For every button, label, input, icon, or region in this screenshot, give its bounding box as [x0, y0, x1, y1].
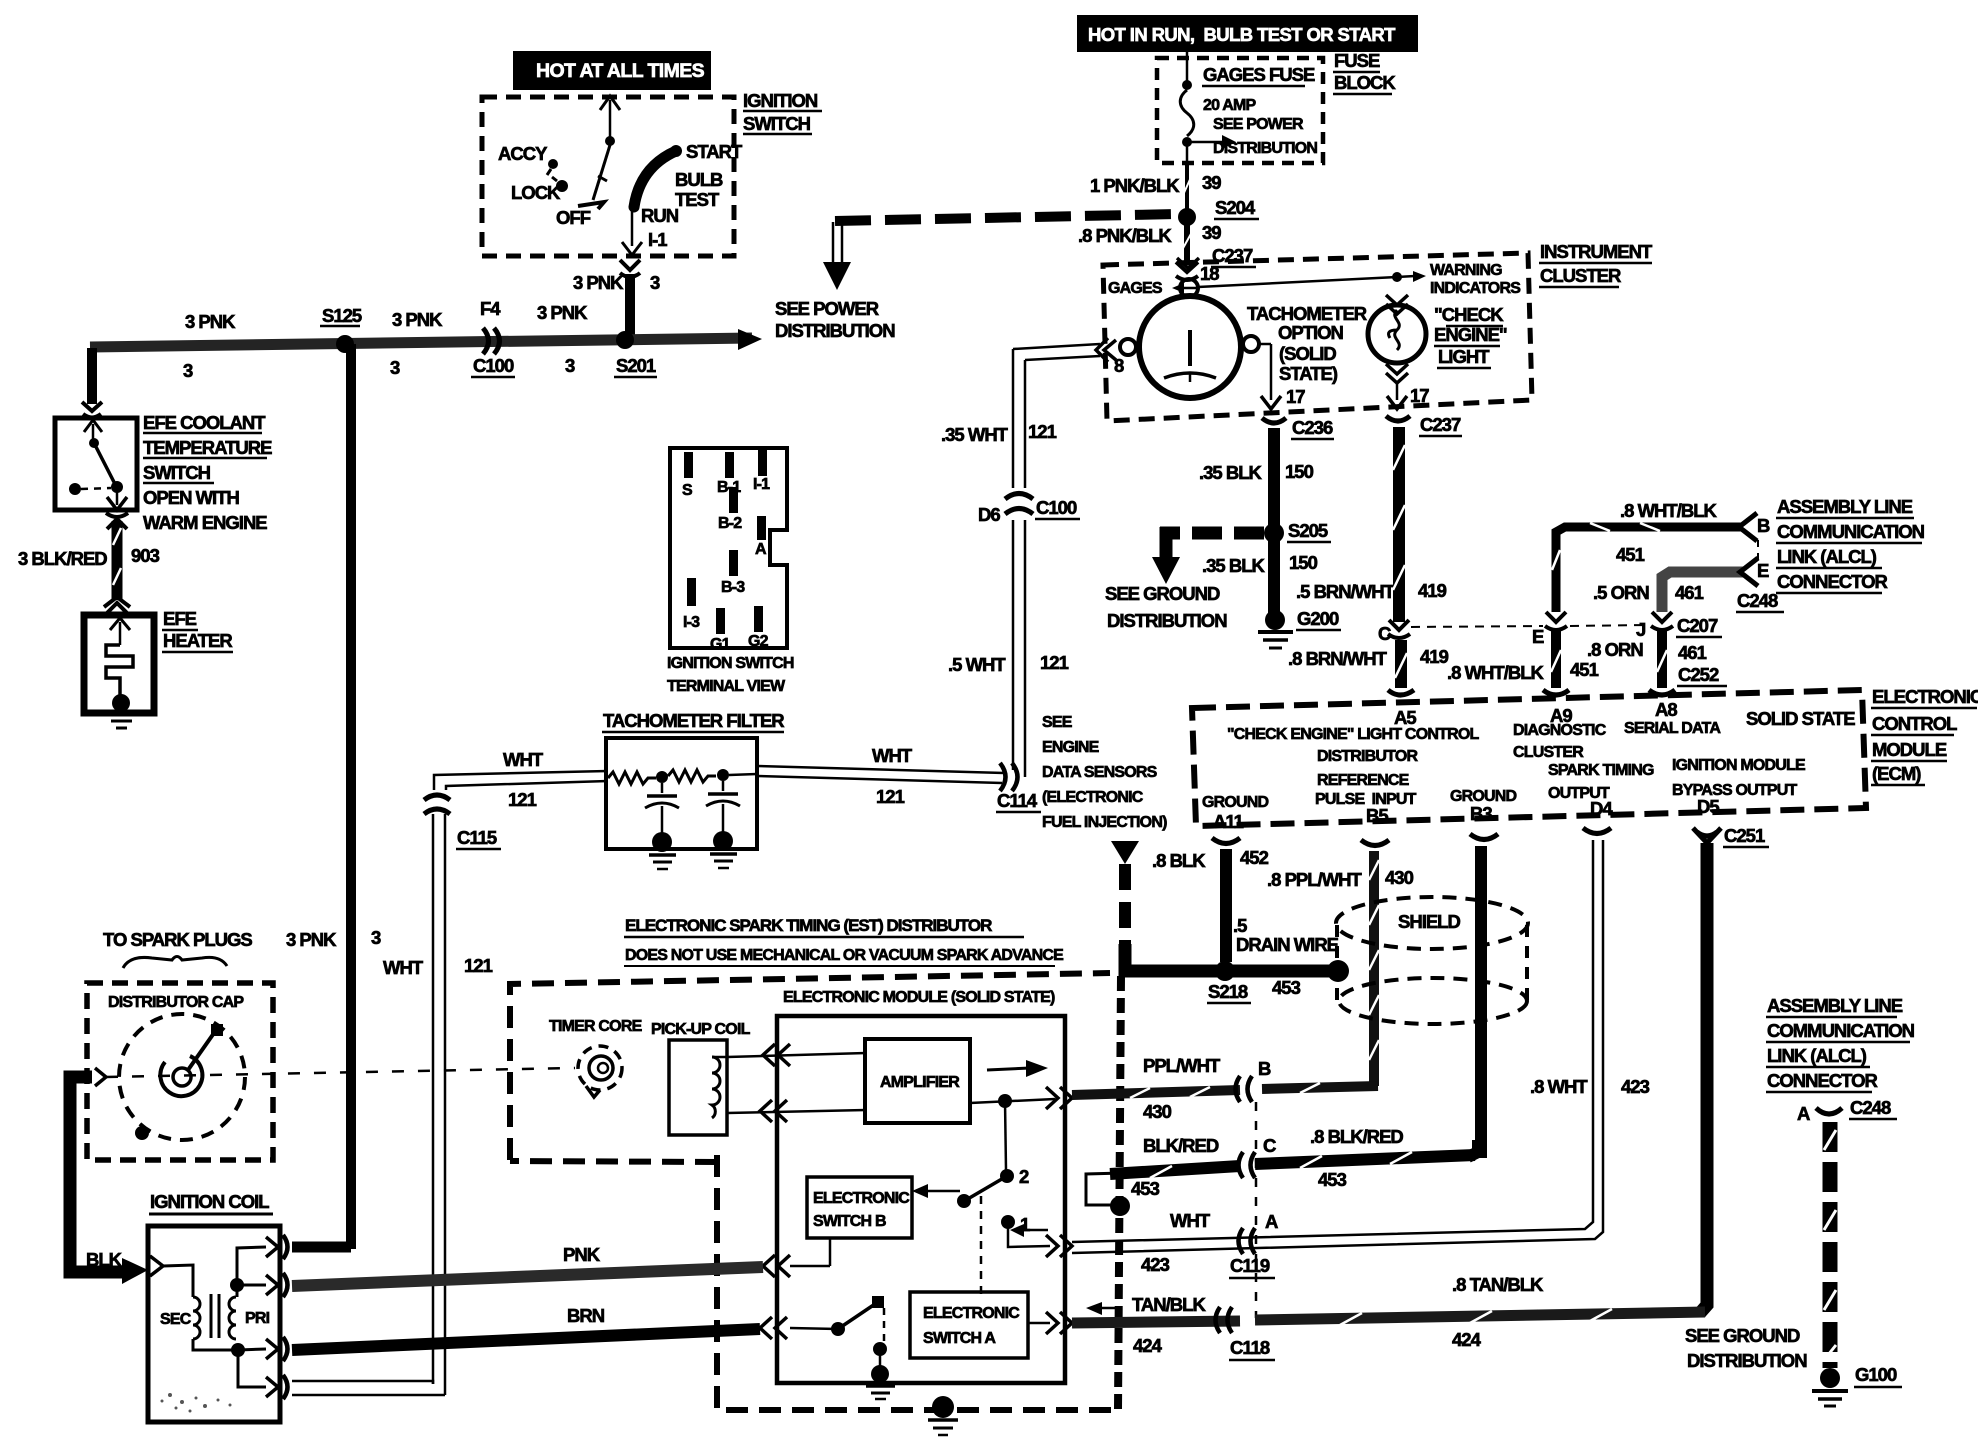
label .8 WHT 423 — [1530, 1076, 1650, 1097]
svg-text:E: E — [1532, 626, 1544, 647]
label .8 TAN/BLK 424 — [1452, 1274, 1544, 1350]
svg-text:I-3: I-3 — [683, 614, 700, 631]
svg-text:430: 430 — [1143, 1101, 1172, 1122]
svg-text:BULB: BULB — [675, 169, 723, 190]
rotor axis dashed line — [106, 1068, 575, 1077]
EFE coolant temperature switch — [55, 418, 137, 510]
svg-text:121: 121 — [508, 789, 537, 810]
svg-text:COMMUNICATION: COMMUNICATION — [1767, 1020, 1915, 1041]
distributor cap left terminal — [95, 1068, 106, 1086]
svg-text:TEST: TEST — [675, 189, 720, 210]
svg-text:S201: S201 — [616, 355, 656, 376]
svg-text:ELECTRONIC: ELECTRONIC — [813, 1190, 910, 1207]
svg-text:.35 WHT: .35 WHT — [941, 424, 1009, 445]
svg-text:(ELECTRONIC: (ELECTRONIC — [1042, 789, 1144, 806]
tachometer filter box — [606, 738, 757, 849]
bulb wire 17 — [1387, 383, 1429, 409]
label .5 DRAIN WIRE — [1233, 915, 1339, 955]
svg-text:OPEN WITH: OPEN WITH — [143, 487, 239, 508]
svg-text:C100: C100 — [473, 355, 514, 376]
svg-text:LIGHT: LIGHT — [1438, 346, 1490, 367]
connector C236 — [1262, 417, 1334, 439]
svg-text:I-1: I-1 — [648, 229, 667, 250]
amplifier output arrow — [987, 1060, 1048, 1077]
fuse block box — [1157, 58, 1323, 163]
svg-text:STATE): STATE) — [1279, 363, 1338, 384]
svg-text:3 PNK: 3 PNK — [537, 302, 588, 323]
svg-text:HOT AT ALL TIMES: HOT AT ALL TIMES — [536, 60, 705, 82]
svg-text:461: 461 — [1678, 642, 1707, 663]
label .8 WHT/BLK 451 (lower) — [1447, 659, 1599, 683]
svg-text:C236: C236 — [1292, 417, 1333, 438]
ignition switch terminal view box — [670, 448, 787, 653]
svg-text:452: 452 — [1240, 847, 1269, 868]
svg-text:S205: S205 — [1288, 520, 1328, 541]
bus arrowhead — [738, 329, 762, 350]
drain wire end junction — [1327, 960, 1349, 982]
svg-text:SEE GROUND: SEE GROUND — [1685, 1325, 1800, 1346]
svg-text:3: 3 — [183, 360, 193, 381]
ignition switch terminal view label — [667, 655, 794, 695]
svg-text:DISTRIBUTOR CAP: DISTRIBUTOR CAP — [108, 994, 244, 1011]
svg-text:J: J — [1636, 619, 1646, 640]
svg-text:DATA SENSORS: DATA SENSORS — [1042, 764, 1158, 781]
svg-text:LOCK: LOCK — [511, 182, 561, 203]
svg-text:DOES NOT USE MECHANICAL OR VAC: DOES NOT USE MECHANICAL OR VACUUM SPARK … — [625, 947, 1064, 964]
amplifier — [865, 1039, 970, 1123]
label .35 BLK 150 (lower) — [1202, 552, 1318, 576]
svg-text:.35 BLK: .35 BLK — [1199, 462, 1263, 483]
BLK/RED wire to B3 — [1110, 1140, 1478, 1178]
ignition coil internals — [160, 1247, 270, 1387]
BLK wire distributor to coil — [70, 1077, 148, 1284]
svg-text:CLUSTER: CLUSTER — [1513, 744, 1584, 761]
coil terminal cups — [283, 1235, 288, 1399]
svg-text:121: 121 — [1040, 652, 1069, 673]
connector B — [1236, 1058, 1272, 1102]
wire RUN to I-1 connector — [622, 208, 642, 255]
fuse block label — [1333, 50, 1396, 94]
warning indicators label — [1430, 262, 1521, 297]
shield cylinder — [1336, 897, 1528, 1024]
svg-text:423: 423 — [1141, 1254, 1170, 1275]
gages fuse labels — [1202, 64, 1317, 157]
connector below coolant switch — [106, 513, 128, 529]
svg-text:TAN/BLK: TAN/BLK — [1132, 1294, 1206, 1315]
svg-text:B: B — [1757, 515, 1770, 536]
svg-text:903: 903 — [131, 545, 160, 566]
wire 903 to EFE heater — [113, 521, 121, 600]
svg-text:A5: A5 — [1394, 707, 1416, 728]
gages fuse — [1180, 52, 1236, 163]
svg-text:PNK: PNK — [563, 1244, 601, 1265]
connector C251 — [1723, 825, 1769, 847]
svg-text:C252: C252 — [1678, 664, 1719, 685]
svg-text:3 BLK/RED: 3 BLK/RED — [18, 548, 107, 569]
svg-text:ENGINE": ENGINE" — [1434, 324, 1507, 345]
svg-text:TO SPARK PLUGS: TO SPARK PLUGS — [103, 929, 252, 950]
EFI branch arrow — [1111, 841, 1139, 864]
svg-text:.8 WHT/BLK: .8 WHT/BLK — [1620, 500, 1717, 521]
svg-text:451: 451 — [1570, 659, 1599, 680]
connector E (ECM row) — [1532, 612, 1567, 647]
svg-text:SOLID STATE: SOLID STATE — [1746, 708, 1855, 729]
svg-text:.8 TAN/BLK: .8 TAN/BLK — [1452, 1274, 1544, 1295]
svg-text:453: 453 — [1318, 1169, 1347, 1190]
cluster feed terminal 18 — [1177, 258, 1219, 297]
svg-text:HEATER: HEATER — [163, 630, 232, 651]
hot-in-run label box — [1077, 15, 1418, 52]
ground G200 — [1258, 608, 1341, 648]
svg-text:424: 424 — [1452, 1329, 1482, 1350]
ALCL ground wire — [1824, 1122, 1836, 1368]
EST box right edge (drain dashed) — [1118, 976, 1121, 1410]
wire J to ECM — [1649, 628, 1675, 695]
svg-text:OFF: OFF — [556, 207, 591, 228]
pick-up coil — [651, 1021, 751, 1135]
svg-text:17: 17 — [1410, 385, 1429, 406]
svg-text:CONTROL: CONTROL — [1872, 713, 1957, 734]
wire point 1 to WHT terminal — [1008, 1222, 1072, 1257]
wire to switch point 2 — [1005, 1101, 1006, 1170]
svg-text:C119: C119 — [1230, 1255, 1270, 1276]
svg-text:.5 ORN: .5 ORN — [1593, 582, 1649, 603]
svg-text:GAGES FUSE: GAGES FUSE — [1203, 64, 1315, 85]
svg-text:ASSEMBLY LINE: ASSEMBLY LINE — [1767, 995, 1903, 1016]
svg-text:DIAGNOSTIC: DIAGNOSTIC — [1513, 722, 1607, 739]
see power distribution (bus) — [775, 298, 895, 341]
label 3 BLK/RED 903 — [18, 545, 160, 569]
amplifier output wire — [970, 1087, 1072, 1109]
connector C237 (top) — [1176, 262, 1198, 280]
svg-text:WARNING: WARNING — [1430, 262, 1502, 279]
svg-text:WHT: WHT — [1170, 1210, 1211, 1231]
PNK wire coil to module — [292, 1244, 763, 1286]
svg-text:.5 WHT: .5 WHT — [948, 654, 1006, 675]
distributor cap rotor — [119, 1014, 245, 1140]
svg-text:.8 BLK: .8 BLK — [1152, 850, 1206, 871]
svg-text:3 PNK: 3 PNK — [573, 272, 624, 293]
svg-text:I-1: I-1 — [753, 476, 770, 493]
wire C114 up to C100 (tach feed) — [948, 520, 1069, 777]
svg-text:.8 BLK/RED: .8 BLK/RED — [1310, 1126, 1403, 1147]
tachometer filter capacitor 1 — [645, 783, 679, 869]
svg-text:121: 121 — [876, 786, 905, 807]
svg-text:FUEL INJECTION): FUEL INJECTION) — [1042, 814, 1167, 831]
TAN/BLK wire module to D5 — [1072, 1302, 1705, 1325]
switch point 1 — [1001, 1214, 1030, 1235]
assembly line communication link label (bottom) — [1766, 995, 1915, 1092]
label .8 ORN 461 C252 — [1587, 639, 1727, 686]
svg-text:E: E — [1757, 560, 1769, 581]
wire S204 to C237 — [1182, 221, 1192, 262]
svg-text:DISTRIBUTION: DISTRIBUTION — [1687, 1350, 1807, 1371]
svg-text:20 AMP: 20 AMP — [1203, 97, 1257, 114]
label WHT 423 C119 — [1141, 1210, 1275, 1278]
svg-text:419: 419 — [1418, 580, 1447, 601]
svg-text:453: 453 — [1272, 977, 1301, 998]
svg-text:WHT: WHT — [503, 749, 544, 770]
wire fuse block to S204 — [1183, 163, 1192, 210]
wire B5 distributor reference (hatched) — [1369, 851, 1379, 1086]
tachometer filter label — [602, 710, 784, 732]
coil terminal arrows — [266, 1237, 278, 1397]
splice S205 — [1264, 520, 1331, 543]
ECM box — [1192, 690, 1866, 826]
svg-text:OPTION: OPTION — [1278, 322, 1344, 343]
svg-text:G2: G2 — [748, 633, 769, 650]
svg-text:2: 2 — [1019, 1166, 1029, 1187]
tachometer filter capacitor 2 — [706, 781, 740, 868]
coil scanner speckle — [161, 1393, 232, 1413]
wire B3 ground (through shield) — [1475, 846, 1487, 1158]
svg-text:150: 150 — [1289, 552, 1318, 573]
tachometer label — [1247, 303, 1367, 384]
svg-text:GAGES: GAGES — [1108, 280, 1163, 297]
wire C237 to ECM (419) — [1393, 427, 1405, 622]
bus labels — [183, 298, 657, 381]
check engine bulb — [1368, 295, 1426, 383]
connector C237 (bottom) — [1386, 414, 1462, 436]
PPL/WHT wire module to shield — [1072, 1083, 1378, 1098]
see ground distribution (right) — [1685, 1325, 1807, 1371]
wire D4 spark timing output (double line) — [1072, 840, 1603, 1253]
tachometer right terminal wire 17 — [1243, 336, 1305, 409]
electronic switch A — [910, 1292, 1028, 1358]
label .35 BLK 150 (upper) — [1199, 461, 1314, 483]
ignition coil left terminal — [150, 1256, 163, 1276]
module left terminal BRN — [760, 1317, 838, 1339]
svg-text:CONNECTOR: CONNECTOR — [1767, 1070, 1878, 1091]
svg-text:.8 WHT: .8 WHT — [1530, 1076, 1588, 1097]
svg-text:S218: S218 — [1208, 981, 1248, 1002]
svg-text:DRAIN WIRE: DRAIN WIRE — [1236, 934, 1339, 955]
svg-text:AMPLIFIER: AMPLIFIER — [880, 1074, 960, 1091]
splice S125 — [336, 335, 354, 353]
ACCY contact — [498, 143, 558, 175]
svg-text:S: S — [682, 482, 693, 499]
svg-text:3 PNK: 3 PNK — [286, 929, 337, 950]
connector C114 — [996, 763, 1041, 812]
label .8 BLK 452 — [1152, 847, 1269, 871]
svg-text:3: 3 — [390, 357, 400, 378]
svg-text:C114: C114 — [997, 790, 1038, 811]
module ground — [866, 1365, 895, 1399]
svg-text:B: B — [1258, 1058, 1271, 1079]
svg-text:SHIELD: SHIELD — [1398, 911, 1460, 932]
svg-text:SEE POWER: SEE POWER — [1213, 116, 1304, 133]
svg-text:C100: C100 — [1036, 497, 1077, 518]
svg-text:B-2: B-2 — [718, 515, 742, 532]
svg-text:INSTRUMENT: INSTRUMENT — [1540, 241, 1653, 262]
svg-text:461: 461 — [1675, 582, 1704, 603]
hot-at-all-times label box — [513, 51, 711, 90]
svg-text:PRI: PRI — [245, 1310, 270, 1327]
svg-text:ELECTRONIC MODULE (SOLID STATE: ELECTRONIC MODULE (SOLID STATE) — [783, 989, 1055, 1006]
ALCL A terminal C248 — [1797, 1097, 1897, 1124]
EST distributor box — [510, 973, 1118, 1410]
svg-text:DISTRIBUTION: DISTRIBUTION — [775, 320, 895, 341]
wire ignition switch to S201 — [625, 274, 635, 338]
svg-text:REFERENCE: REFERENCE — [1317, 772, 1410, 789]
splice S204 — [1178, 208, 1196, 226]
switch point 2 — [1000, 1166, 1029, 1187]
svg-text:.8 WHT/BLK: .8 WHT/BLK — [1447, 662, 1544, 683]
svg-text:1 PNK/BLK: 1 PNK/BLK — [1090, 175, 1180, 196]
dashed B to E — [1757, 540, 1759, 562]
EST box bottom ground — [928, 1396, 958, 1435]
svg-text:SWITCH: SWITCH — [143, 462, 211, 483]
svg-text:DISTRIBUTION: DISTRIBUTION — [1107, 610, 1227, 631]
svg-text:3 PNK: 3 PNK — [185, 311, 236, 332]
electronic module box — [777, 1016, 1065, 1383]
ignition coil label — [149, 1191, 273, 1214]
label .5 ORN 461 E C248 — [1593, 560, 1784, 612]
svg-text:TEMPERATURE: TEMPERATURE — [143, 437, 272, 458]
svg-text:A: A — [1265, 1211, 1278, 1232]
svg-text:WHT: WHT — [383, 957, 424, 978]
GAGES arrow — [1108, 280, 1198, 297]
svg-text:3 PNK: 3 PNK — [392, 309, 443, 330]
svg-text:S204: S204 — [1215, 197, 1256, 218]
svg-text:TACHOMETER: TACHOMETER — [1247, 303, 1367, 324]
wire coil to S125 feed (top terminal) — [292, 1242, 351, 1253]
switch A output wire — [1028, 1312, 1072, 1334]
check engine light label — [1434, 304, 1507, 368]
svg-text:39: 39 — [1202, 222, 1221, 243]
instrument cluster box — [1103, 253, 1532, 421]
EFE heater ground — [106, 714, 137, 728]
svg-text:PPL/WHT: PPL/WHT — [1143, 1055, 1221, 1076]
svg-text:CLUSTER: CLUSTER — [1540, 265, 1621, 286]
svg-text:S125: S125 — [322, 305, 362, 326]
dashed wire to S204 — [835, 214, 1180, 221]
svg-text:EFE: EFE — [163, 608, 197, 629]
label 3 PNK / 3 — [573, 272, 660, 293]
timer core — [549, 1018, 643, 1097]
svg-text:A8: A8 — [1655, 699, 1677, 720]
svg-text:G1: G1 — [710, 636, 731, 653]
tachometer left terminal 8 — [1096, 338, 1136, 376]
ignition coil box — [148, 1226, 280, 1422]
svg-text:INDICATORS: INDICATORS — [1430, 280, 1521, 297]
ignition switch label — [743, 90, 822, 134]
svg-text:G200: G200 — [1297, 608, 1339, 629]
svg-text:8: 8 — [1114, 355, 1124, 376]
svg-text:IGNITION COIL: IGNITION COIL — [150, 1191, 269, 1212]
ECM interior labels — [1202, 699, 1855, 832]
svg-text:.5: .5 — [1233, 915, 1247, 936]
svg-text:D6: D6 — [978, 504, 1000, 525]
label S218 453 — [1207, 977, 1301, 1003]
dashed drain branch wire — [1119, 864, 1131, 948]
svg-text:TACHOMETER FILTER: TACHOMETER FILTER — [603, 710, 784, 731]
assembly line communication link label (top) — [1776, 496, 1925, 593]
connector above EFE heater — [104, 597, 130, 613]
svg-text:DISTRIBUTION: DISTRIBUTION — [1213, 140, 1317, 157]
svg-text:ELECTRONIC SPARK TIMING (EST): ELECTRONIC SPARK TIMING (EST) DISTRIBUTO… — [625, 916, 992, 935]
svg-text:C118: C118 — [1230, 1337, 1270, 1358]
svg-text:SWITCH: SWITCH — [743, 113, 811, 134]
see ground distribution label — [1105, 583, 1227, 631]
ignition switch box — [482, 97, 734, 256]
svg-text:BYPASS OUTPUT: BYPASS OUTPUT — [1672, 782, 1797, 799]
svg-text:B-3: B-3 — [721, 579, 745, 596]
svg-text:CONNECTOR: CONNECTOR — [1777, 571, 1888, 592]
svg-text:LINK (ALCL): LINK (ALCL) — [1777, 546, 1877, 567]
label TAN/BLK 424 C118 — [1132, 1294, 1275, 1360]
svg-text:419: 419 — [1420, 646, 1449, 667]
svg-text:PICK-UP COIL: PICK-UP COIL — [651, 1021, 751, 1038]
module left terminal PNK — [763, 1238, 830, 1277]
svg-text:430: 430 — [1385, 867, 1414, 888]
svg-text:B5: B5 — [1366, 805, 1388, 826]
EFE coolant temperature switch label — [143, 412, 272, 533]
svg-text:HOT IN RUN, BULB TEST OR STAR: HOT IN RUN, BULB TEST OR START — [1088, 24, 1396, 45]
svg-text:ELECTRONIC: ELECTRONIC — [1872, 686, 1978, 707]
ignition switch battery feed arrow — [600, 96, 620, 146]
connector C (453) — [1239, 1135, 1277, 1178]
wire 461 from ALCL E — [1662, 558, 1758, 612]
svg-text:A11: A11 — [1213, 811, 1244, 832]
svg-text:(ECM): (ECM) — [1872, 763, 1921, 784]
label 1 PNK/BLK 39 S204 — [1090, 172, 1259, 219]
tachometer filter resistors — [608, 769, 757, 784]
svg-text:RUN: RUN — [641, 205, 679, 226]
connector J C207 — [1636, 612, 1722, 640]
svg-text:EFE COOLANT: EFE COOLANT — [143, 412, 266, 433]
svg-text:TERMINAL VIEW: TERMINAL VIEW — [667, 678, 786, 695]
splice S218 — [1215, 961, 1235, 981]
svg-text:SWITCH A: SWITCH A — [923, 1330, 996, 1347]
svg-text:.8 PNK/BLK: .8 PNK/BLK — [1078, 225, 1172, 246]
svg-text:.8 PPL/WHT: .8 PPL/WHT — [1267, 869, 1363, 890]
distributor cap box — [87, 983, 273, 1160]
svg-text:423: 423 — [1621, 1076, 1650, 1097]
svg-text:SWITCH B: SWITCH B — [813, 1213, 886, 1230]
BLK/RED wire stub — [1086, 1173, 1130, 1216]
instrument cluster label — [1539, 241, 1653, 287]
svg-text:BLK: BLK — [86, 1249, 123, 1270]
svg-text:SERIAL DATA: SERIAL DATA — [1624, 720, 1721, 737]
svg-text:ELECTRONIC: ELECTRONIC — [923, 1305, 1020, 1322]
svg-text:COMMUNICATION: COMMUNICATION — [1777, 521, 1925, 542]
svg-text:.5 BRN/WHT: .5 BRN/WHT — [1296, 581, 1396, 602]
svg-text:DISTRIBUTOR: DISTRIBUTOR — [1317, 748, 1418, 765]
svg-text:SPARK TIMING: SPARK TIMING — [1548, 762, 1654, 779]
svg-text:121: 121 — [1028, 421, 1057, 442]
svg-text:MODULE: MODULE — [1872, 739, 1947, 760]
EST distributor title — [624, 916, 1064, 966]
svg-text:.8 ORN: .8 ORN — [1587, 639, 1643, 660]
connector C115 — [424, 795, 501, 849]
wire A11 to S218 — [1220, 849, 1232, 962]
label .8 BRN/WHT 419 — [1288, 646, 1449, 669]
svg-text:WARM ENGINE: WARM ENGINE — [143, 512, 267, 533]
svg-text:3: 3 — [650, 272, 660, 293]
svg-text:BLK/RED: BLK/RED — [1143, 1135, 1219, 1156]
svg-text:.8 BRN/WHT: .8 BRN/WHT — [1288, 648, 1388, 669]
connector I-1 below ignition switch — [620, 260, 640, 277]
svg-text:START: START — [686, 141, 743, 162]
wire pair C115 down to ignition coil — [383, 814, 493, 1395]
BULB TEST RUN I-1 labels — [641, 169, 723, 250]
wire C236 to S205 — [1268, 428, 1280, 615]
label .8 PNK/BLK 39 C237 — [1078, 222, 1256, 267]
svg-text:C237: C237 — [1420, 414, 1461, 435]
svg-text:GROUND: GROUND — [1202, 794, 1269, 811]
filter output wire (WHT 121) to C114 — [757, 745, 1004, 807]
